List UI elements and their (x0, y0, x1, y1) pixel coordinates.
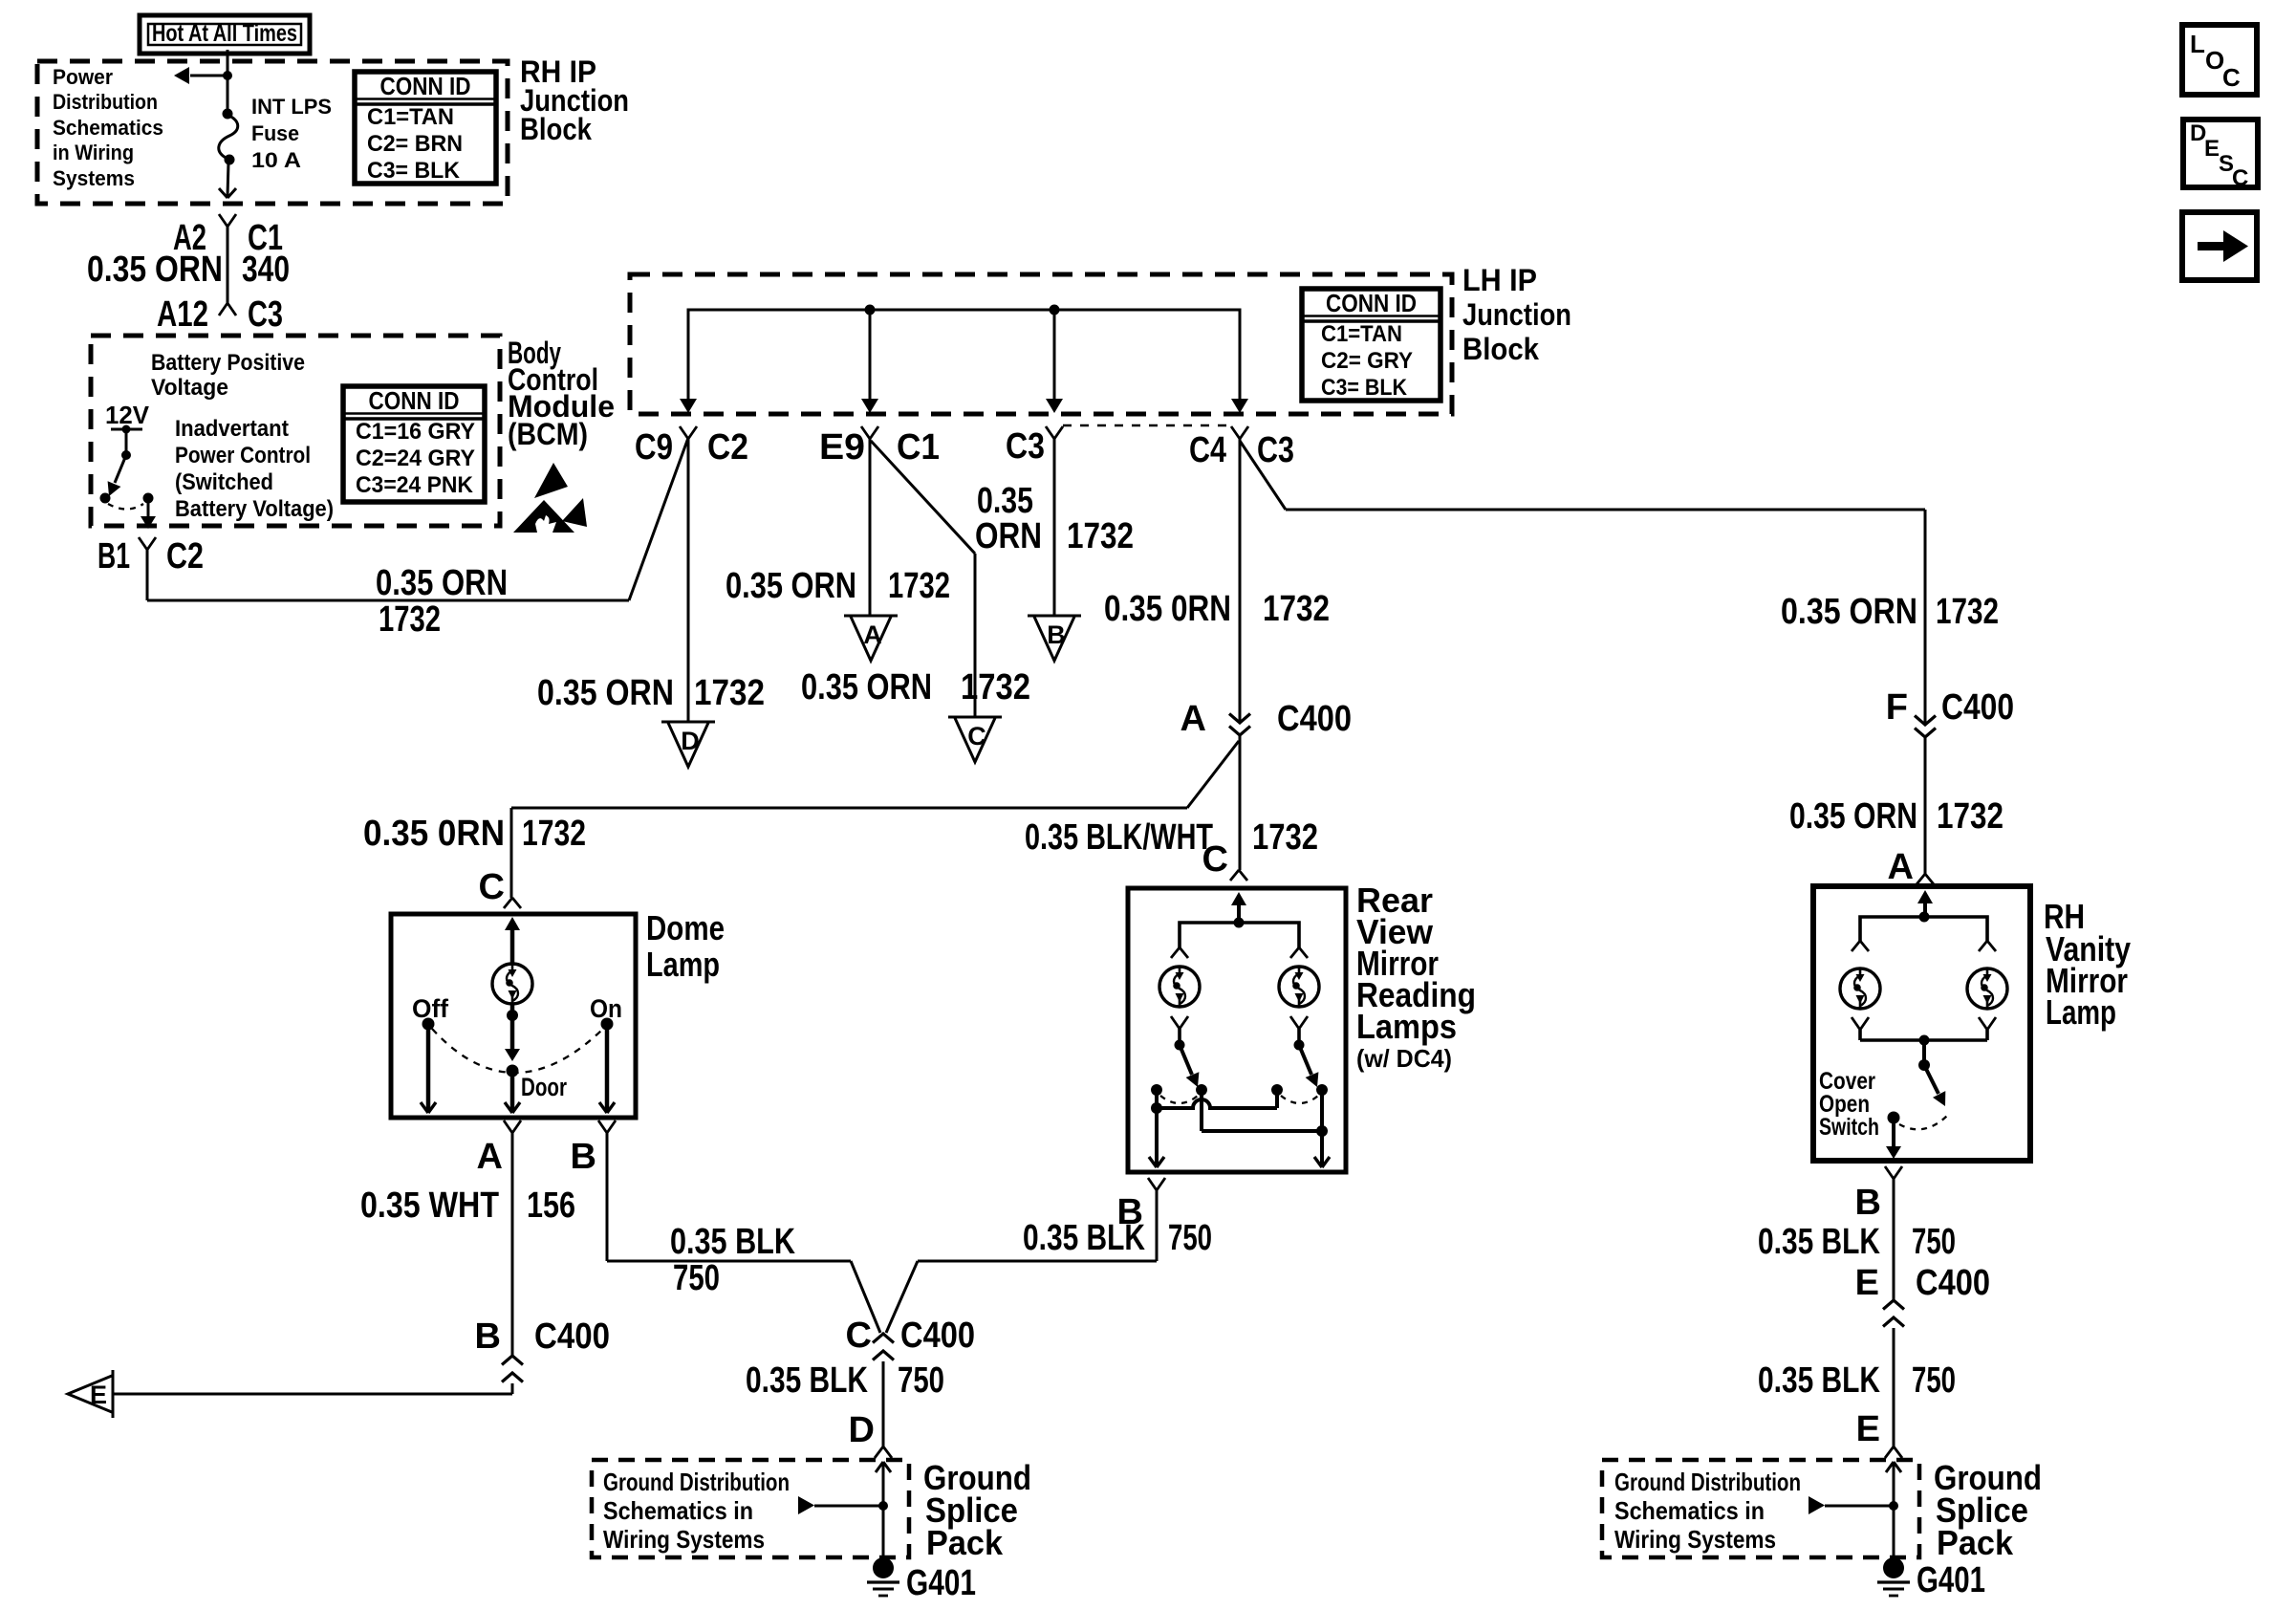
ref triangle A (844, 615, 898, 618)
svg-text:1732: 1732 (961, 667, 1030, 707)
connector E9 / C1 (fork up) (861, 426, 870, 439)
connector pin B of rvm (fork up) (1148, 1178, 1157, 1190)
svg-text:INT LPS: INT LPS (251, 95, 332, 119)
svg-text:B: B (571, 1137, 596, 1177)
svg-text:Wiring Systems: Wiring Systems (603, 1525, 765, 1554)
svg-text:ORN: ORN (975, 516, 1042, 556)
svg-text:CONN ID: CONN ID (1326, 289, 1417, 317)
connector fork below right vanity bulb (1979, 1017, 1987, 1030)
svg-text:750: 750 (673, 1258, 720, 1298)
svg-text:A: A (1180, 699, 1206, 739)
node: dome lamp switch common (510, 1004, 515, 1015)
wire: vanity B to C400 E, 0.35 BLK 750 (1893, 1179, 1895, 1300)
ref triangle D (661, 721, 715, 724)
svg-text:Switch: Switch (1819, 1114, 1879, 1141)
ref triangle C (948, 716, 1002, 719)
svg-text:1732: 1732 (1937, 796, 2004, 837)
right rvm bulb (1279, 967, 1319, 1007)
node: bus junction at E9 drop (865, 305, 876, 315)
svg-text:D: D (849, 1410, 875, 1450)
svg-text:B: B (1047, 620, 1066, 649)
connector C3 (fork up) (1046, 426, 1054, 439)
svg-text:1732: 1732 (1252, 817, 1318, 858)
wire: dome B to C400 C, 0.35 BLK 750 (606, 1133, 609, 1261)
wire: drop to E9 with arrow (869, 310, 872, 402)
bus wire inside LH IP junction block (688, 310, 1240, 402)
dashed switch throw arc (dome lamp) (432, 1029, 603, 1073)
svg-text:0.35 WHT: 0.35 WHT (360, 1186, 499, 1226)
switch: left rvm lamp (1178, 1029, 1181, 1043)
svg-text:CONN ID: CONN ID (369, 386, 460, 415)
svg-text:C4: C4 (1189, 430, 1226, 470)
connector pin B of dome lamp (fork up) (598, 1120, 607, 1133)
svg-text:D: D (681, 727, 700, 755)
ref triangle E (left) (112, 1370, 115, 1418)
arrow: drop to C4 (1231, 399, 1248, 413)
svg-text:0.35 BLK: 0.35 BLK (670, 1222, 795, 1262)
svg-text:(w/ DC4): (w/ DC4) (1356, 1044, 1452, 1073)
connector C4 / C3 (fork up) (1231, 426, 1240, 439)
switch: dome lamp 3-position, moving contact (510, 1015, 515, 1049)
wire: rvm internal bus (1180, 923, 1299, 947)
connector fork below right rvm bulb (1290, 1016, 1299, 1029)
CONN ID table (RH IP): C1=TAN C2= BRN C3= BLK (355, 72, 496, 184)
svg-text:C: C (967, 722, 986, 751)
wire: vanity internal top bus (1860, 917, 1987, 941)
wire: rvm ground crossover 1 with jump (1155, 1090, 1159, 1108)
svg-text:C2= BRN: C2= BRN (367, 131, 463, 157)
wire: C400 E to ground splice pack E, 0.35 BLK 750 (1893, 1328, 1895, 1443)
wire: splice pack internal arrow up (right) (1893, 1462, 1895, 1507)
svg-text:C400: C400 (1916, 1263, 1990, 1303)
wire: C400 B to ref triangle E (511, 1383, 514, 1394)
svg-text:C: C (479, 867, 505, 907)
svg-text:LH IP: LH IP (1462, 263, 1537, 297)
right vanity bulb (1967, 968, 2007, 1009)
wire: C400 C to ground splice pack D, 0.35 BLK 750 (882, 1361, 885, 1443)
wire: rvm B to C400 C, 0.35 BLK 750 (1156, 1190, 1159, 1261)
wire: C4 diagonal feed to RH vanity, via C3 (1240, 441, 1286, 510)
svg-text:Systems: Systems (53, 166, 135, 190)
svg-text:0.35 BLK: 0.35 BLK (1758, 1222, 1880, 1262)
svg-text:C1: C1 (897, 427, 940, 468)
svg-text:0.35 ORN: 0.35 ORN (376, 563, 508, 603)
svg-text:C: C (2222, 63, 2241, 92)
svg-text:C3: C3 (248, 294, 283, 335)
svg-text:Pack: Pack (926, 1523, 1004, 1562)
svg-text:Lamps: Lamps (1356, 1007, 1457, 1046)
connector fork below left rvm bulb (1171, 1016, 1180, 1029)
svg-text:0.35 ORN: 0.35 ORN (87, 250, 223, 290)
svg-text:Power Control: Power Control (175, 443, 311, 468)
ESD sensitivity symbol (534, 463, 568, 498)
switch: cover open switch (1922, 1040, 1926, 1063)
arrow: drop to C9 (680, 399, 697, 413)
svg-text:1732: 1732 (1263, 589, 1330, 629)
svg-text:C3: C3 (1006, 426, 1045, 467)
svg-text:Fuse: Fuse (251, 121, 299, 145)
svg-text:C400: C400 (1941, 687, 2014, 728)
RH IP Junction Block dashed box (37, 61, 508, 204)
wire: C400 A to rear view mirror, 0.35 BLK/WHT 1732 (1239, 735, 1242, 870)
icon box LOC (2182, 25, 2257, 95)
connector pin A of dome lamp (fork up) (504, 1120, 512, 1133)
fuse INT LPS 10 A (223, 109, 233, 120)
svg-text:Block: Block (1462, 332, 1539, 366)
svg-text:E: E (1855, 1263, 1879, 1303)
connector fork above right vanity bulb (1979, 941, 1987, 951)
ground symbol G401 (right) (1883, 1557, 1904, 1578)
svg-text:E: E (90, 1381, 107, 1409)
Ground Splice Pack dashed box (left) (592, 1460, 909, 1557)
wire: Hot At All Times feed into junction block (227, 50, 229, 76)
connector pin B1 / C2 (fork up) (139, 537, 147, 550)
svg-text:Door: Door (521, 1073, 567, 1101)
Rear View Mirror Reading Lamps box (1128, 888, 1346, 1172)
wire: splice feed from ground distribution (798, 1496, 814, 1514)
svg-text:C1=TAN: C1=TAN (1321, 321, 1402, 347)
svg-text:CONN ID: CONN ID (380, 72, 471, 100)
svg-text:1732: 1732 (1936, 592, 1999, 632)
svg-text:Power: Power (53, 65, 113, 89)
wire: C4 down to connector C400 pin A, 0.35 0RN 1732 (1239, 439, 1242, 723)
svg-text:0.35 ORN: 0.35 ORN (801, 667, 932, 707)
svg-text:A12: A12 (157, 294, 208, 335)
svg-text:156: 156 (527, 1186, 575, 1226)
node: vanity bus junction (1919, 912, 1930, 923)
node: rvm bus junction (1234, 918, 1245, 928)
svg-text:G401: G401 (906, 1563, 976, 1603)
svg-text:0.35 BLK/WHT: 0.35 BLK/WHT (1025, 817, 1213, 858)
svg-text:C9: C9 (635, 427, 673, 468)
svg-text:0.35 BLK: 0.35 BLK (746, 1360, 868, 1401)
connector pin A2 / C1 (fork up) (219, 214, 227, 227)
wire to ground G401 (left) (882, 1506, 885, 1558)
wire: rvm feed arrow (1231, 892, 1246, 905)
dashed connector tie line between C3 and C4 (1063, 424, 1231, 427)
svg-text:C400: C400 (534, 1316, 610, 1357)
svg-text:1732: 1732 (379, 599, 441, 640)
svg-text:750: 750 (1168, 1218, 1212, 1258)
svg-text:(Switched: (Switched (175, 469, 273, 495)
svg-text:750: 750 (1912, 1360, 1956, 1401)
icon box forward arrow (2182, 212, 2257, 280)
svg-text:C1=16 GRY: C1=16 GRY (356, 419, 475, 445)
wire: splice pack internal arrow up (882, 1462, 885, 1507)
connector fork above left rvm bulb (1171, 947, 1180, 958)
wire: branch to dome lamp, 0.35 0RN 1732 (1187, 741, 1239, 808)
switch: inadvertent power control contact (111, 428, 142, 431)
Ground Splice Pack dashed box (right) (1602, 1460, 1919, 1557)
svg-text:Hot At All Times: Hot At All Times (152, 20, 297, 47)
svg-text:C2: C2 (166, 536, 204, 577)
svg-text:Lamp: Lamp (2046, 992, 2116, 1032)
svg-text:1732: 1732 (1067, 516, 1134, 556)
svg-text:C3: C3 (1257, 430, 1294, 470)
svg-text:Battery Positive: Battery Positive (151, 350, 305, 376)
svg-text:10 A: 10 A (251, 148, 301, 172)
svg-text:E: E (1856, 1409, 1880, 1449)
svg-text:Pack: Pack (1937, 1523, 2014, 1562)
svg-text:C2: C2 (707, 427, 748, 468)
wire: vanity internal bottom bus (1860, 1038, 1987, 1042)
wire: dome A to C400 B, 0.35 WHT 156 (511, 1133, 514, 1356)
svg-text:Dome: Dome (646, 908, 725, 947)
connector fork above right rvm bulb (1290, 947, 1299, 958)
left rvm bulb (1159, 967, 1200, 1007)
connector pin A12 / C3 (fork down) (219, 303, 227, 315)
ground symbol G401 (left) (873, 1557, 894, 1578)
wire: dome lamp feed arrow (505, 917, 520, 930)
svg-text:L: L (2190, 30, 2205, 58)
svg-text:1732: 1732 (522, 814, 586, 854)
svg-text:12V: 12V (105, 401, 150, 429)
svg-text:F: F (1886, 687, 1908, 728)
Dome Lamp box (391, 914, 636, 1118)
svg-text:1732: 1732 (888, 566, 950, 606)
svg-text:Block: Block (520, 112, 592, 146)
node: rvm right ground junction (1316, 1125, 1328, 1137)
LH IP Junction Block dashed box (630, 274, 1452, 414)
svg-text:B: B (475, 1316, 501, 1357)
svg-text:1732: 1732 (694, 673, 765, 713)
svg-text:C400: C400 (1277, 699, 1352, 739)
wire: C3 to ref triangle B, 0.35 ORN 1732 (1053, 439, 1056, 616)
svg-text:340: 340 (242, 250, 290, 290)
svg-text:C: C (2232, 165, 2248, 191)
wire: E9 to ref triangle A, 0.35 ORN 1732 (869, 439, 872, 616)
wire: rvm ground crossover 2 (1200, 1090, 1203, 1131)
svg-text:B1: B1 (97, 536, 130, 577)
node: splice junction (right) (1889, 1501, 1898, 1511)
svg-text:Ground Distribution: Ground Distribution (603, 1468, 790, 1496)
svg-text:G401: G401 (1917, 1560, 1985, 1600)
svg-text:A: A (1888, 847, 1914, 887)
svg-text:0.35 ORN: 0.35 ORN (1789, 796, 1917, 837)
svg-text:Schematics in: Schematics in (1614, 1496, 1765, 1525)
svg-text:0.35 ORN: 0.35 ORN (726, 566, 856, 606)
node: splice junction (left) (878, 1501, 888, 1511)
svg-text:E9: E9 (819, 427, 865, 468)
svg-text:Voltage: Voltage (151, 375, 228, 401)
connector fork above left vanity bulb (1852, 941, 1860, 951)
switch: right rvm lamp (1297, 1029, 1301, 1043)
svg-text:Lamp: Lamp (646, 945, 720, 984)
svg-text:E: E (2204, 136, 2220, 162)
wire: E9 diagonal to ref triangle C, 0.35 ORN 1732 (871, 441, 975, 554)
node: fuse top junction (223, 71, 232, 80)
svg-text:C400: C400 (900, 1316, 975, 1356)
svg-text:0.35: 0.35 (977, 481, 1033, 521)
wire: rvm right pin exit arrow (1320, 1131, 1324, 1166)
svg-text:(BCM): (BCM) (508, 417, 588, 451)
svg-text:C2= GRY: C2= GRY (1321, 348, 1413, 374)
svg-text:A: A (863, 620, 882, 649)
svg-text:A: A (477, 1137, 503, 1177)
svg-text:0.35 BLK: 0.35 BLK (1758, 1360, 1880, 1401)
CONN ID table (BCM): C1=16 GRY C2=24 GRY C3=24 PNK (343, 386, 485, 502)
svg-text:Inadvertant: Inadvertant (175, 416, 289, 442)
svg-text:Schematics: Schematics (53, 116, 163, 140)
svg-text:C1=TAN: C1=TAN (367, 104, 454, 130)
CONN ID table (LH IP): C1=TAN C2= GRY C3= BLK (1302, 289, 1440, 401)
wire: BCM B1 to LH IP C9, 0.35 ORN 1732 (146, 550, 149, 600)
label box: Hot At All Times (140, 15, 310, 54)
RH Vanity Mirror Lamp box (1813, 886, 2030, 1161)
svg-text:C3=24 PNK: C3=24 PNK (356, 472, 474, 498)
svg-text:0.35 ORN: 0.35 ORN (537, 673, 674, 713)
connector pin B of vanity lamp (fork up) (1885, 1166, 1894, 1179)
wire: splice feed from ground distribution (right) (1809, 1496, 1825, 1514)
svg-text:B: B (1855, 1183, 1881, 1223)
svg-text:Distribution: Distribution (53, 90, 158, 114)
wire: C9 to ref triangle D, 0.35 ORN 1732 (687, 439, 690, 722)
wire: rvm left pin exit arrow (1155, 1108, 1159, 1166)
svg-text:C: C (846, 1316, 872, 1356)
svg-text:750: 750 (1912, 1222, 1956, 1262)
wire: drop to C3 with arrow (1053, 310, 1056, 402)
svg-text:C3= BLK: C3= BLK (1321, 375, 1408, 401)
icon box DESC (2183, 120, 2258, 187)
connector fork below left vanity bulb (1852, 1017, 1860, 1030)
svg-text:Ground Distribution: Ground Distribution (1614, 1468, 1801, 1496)
svg-text:C: C (1202, 839, 1228, 880)
node: bus junction at C3 drop (1050, 305, 1060, 315)
svg-text:Battery Voltage): Battery Voltage) (175, 496, 334, 522)
Body Control Module (BCM) dashed box (91, 336, 500, 526)
node: vanity bottom bus junction (1919, 1035, 1930, 1046)
wire: vanity feed arrow (1917, 890, 1933, 903)
wire: arrow to power distribution (190, 75, 229, 77)
svg-text:0.35 ORN: 0.35 ORN (1781, 592, 1917, 632)
svg-text:750: 750 (898, 1360, 944, 1401)
svg-text:Schematics in: Schematics in (603, 1496, 753, 1525)
connector C9 / C2 (fork up) (680, 426, 688, 439)
svg-text:C2=24 GRY: C2=24 GRY (356, 446, 475, 471)
wire: C400 F to RH vanity mirror lamp pin A (1924, 737, 1927, 874)
svg-text:C3= BLK: C3= BLK (367, 158, 461, 184)
svg-text:0.35 BLK: 0.35 BLK (1023, 1218, 1145, 1258)
dome lamp bulb (492, 964, 532, 1004)
svg-text:Wiring Systems: Wiring Systems (1614, 1525, 1776, 1554)
wire to ground G401 (right) (1893, 1506, 1895, 1558)
svg-text:in Wiring: in Wiring (53, 141, 134, 164)
svg-text:0.35 0RN: 0.35 0RN (363, 814, 505, 854)
svg-text:Junction: Junction (1462, 297, 1571, 332)
svg-text:0.35 0RN: 0.35 0RN (1104, 589, 1231, 629)
ref triangle B (1028, 615, 1081, 618)
left vanity bulb (1840, 968, 1880, 1009)
